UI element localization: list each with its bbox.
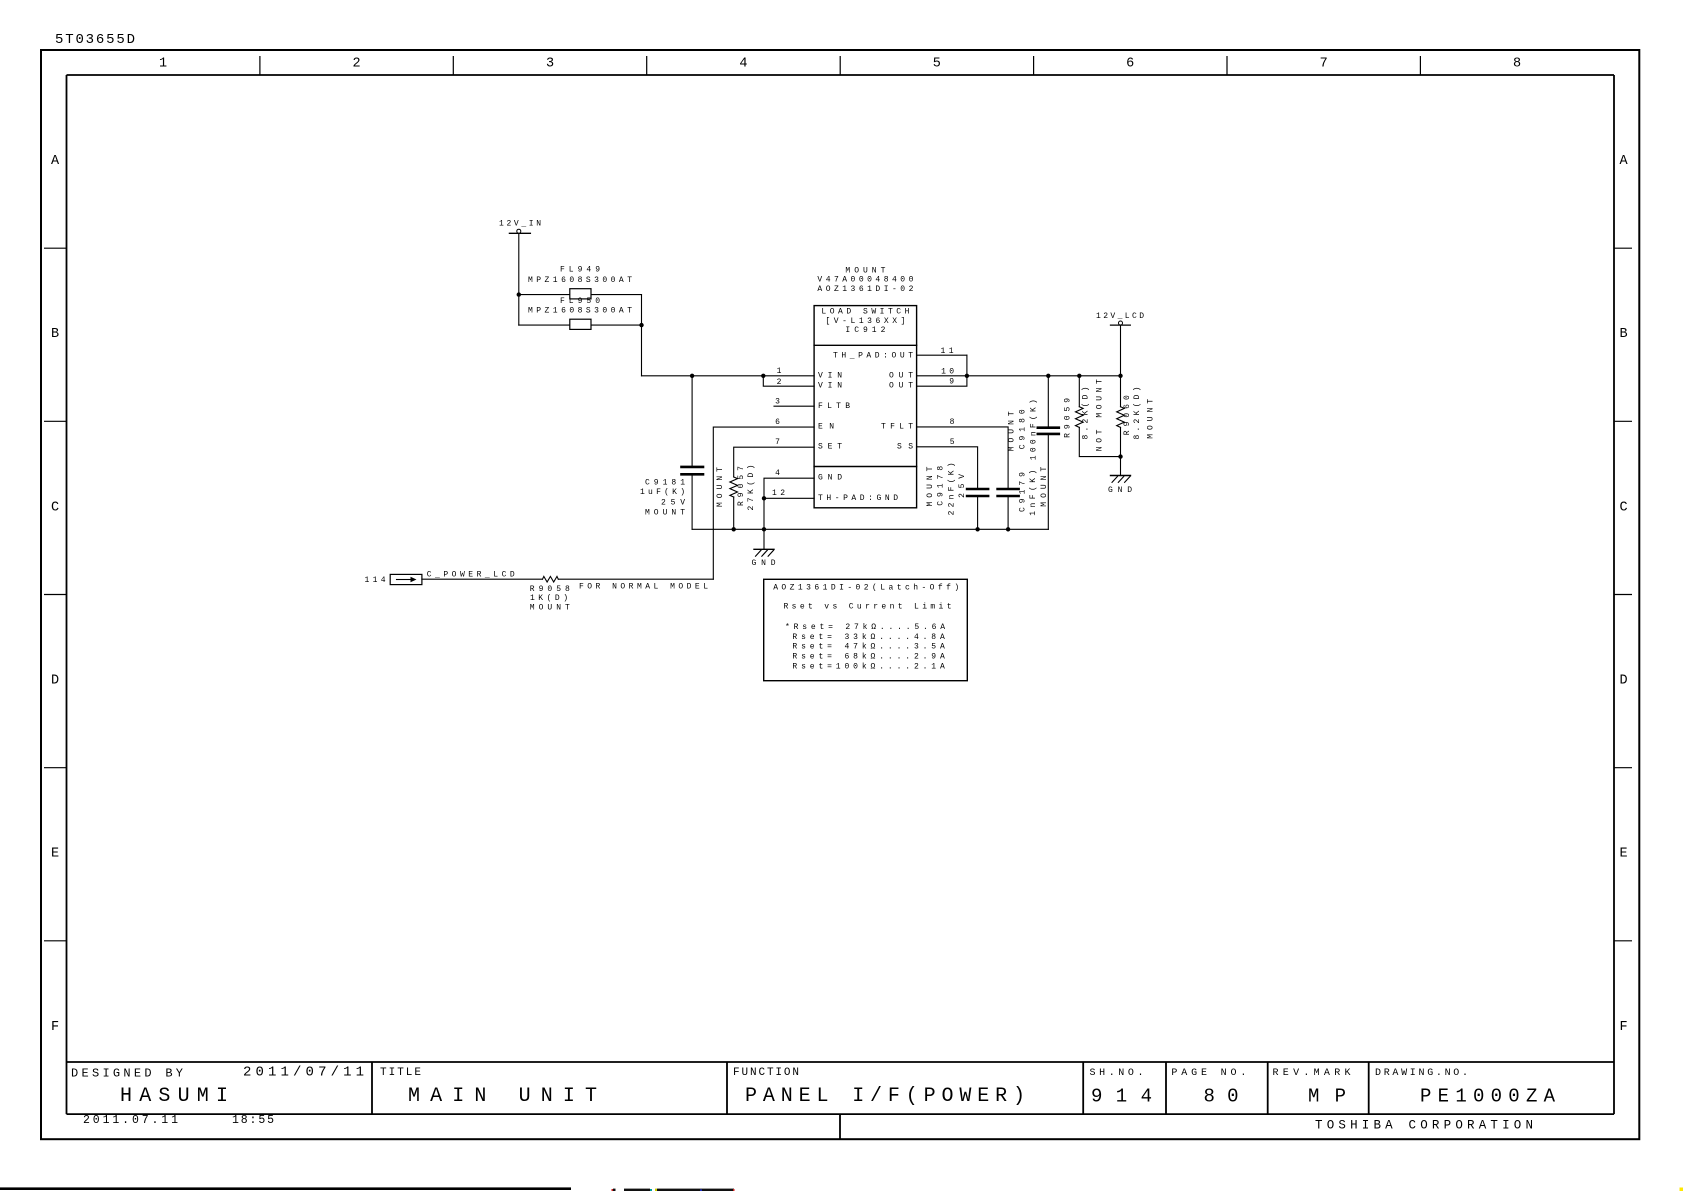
pin 12 stub TH-PAD:GND (764, 497, 814, 499)
svg-text:TITLE: TITLE (380, 1067, 421, 1079)
svg-text:4: 4 (775, 469, 780, 478)
row letters right (1619, 154, 1628, 1035)
connector 114 box (390, 574, 422, 584)
svg-text:D: D (51, 674, 59, 689)
pin 3 stub FLTB (774, 405, 814, 407)
resistor R9058 (543, 576, 559, 582)
svg-text:OUT: OUT (889, 382, 913, 391)
row ticks left (44, 248, 67, 941)
ferrite bead FL949 (570, 289, 591, 299)
capacitor C9180 (1047, 376, 1049, 427)
node C9179 bottom (1006, 527, 1010, 531)
wire VIN pin2 jog (763, 376, 814, 386)
pin 5 stub SS (917, 447, 978, 488)
svg-text:5: 5 (933, 57, 941, 72)
svg-text:VIN: VIN (818, 371, 842, 380)
svg-text:F: F (51, 1020, 59, 1035)
node 12V_LCD junction (1118, 374, 1122, 378)
svg-text:1: 1 (159, 57, 167, 72)
svg-text:25V: 25V (661, 498, 685, 507)
column ticks top (260, 56, 1421, 75)
wire 12V_IN down (518, 233, 520, 294)
capacitor C9181 (691, 376, 693, 466)
wire FL950 row (519, 324, 642, 326)
node VIN pins junction (761, 374, 765, 378)
svg-text:NOT MOUNT: NOT MOUNT (1096, 379, 1105, 451)
wire right node vertical (641, 295, 643, 376)
svg-text:GND: GND (818, 473, 842, 482)
node 12V_IN / FL junction (517, 292, 521, 296)
bottom scan artifact fragments (612, 1189, 614, 1191)
wire connector to R9058 (422, 578, 543, 580)
resistor R9059 (1078, 376, 1080, 407)
svg-text:1: 1 (777, 367, 782, 376)
TEXTS schematic (365, 220, 1156, 613)
pin 10 wire OUT net (917, 375, 1121, 377)
node R9057 bottom (732, 527, 736, 531)
row ticks right (1614, 248, 1632, 941)
node C9181 top (690, 374, 694, 378)
wire VIN net (642, 375, 815, 377)
connector 114 arrow head (411, 577, 417, 583)
svg-text:6: 6 (775, 418, 780, 427)
ground GND right (1111, 475, 1131, 477)
svg-text:9: 9 (949, 378, 954, 387)
node OUT pins junction (965, 374, 969, 378)
svg-text:D: D (1619, 674, 1627, 689)
note box AOZ1361DI-02 (764, 579, 968, 680)
ground GND left (754, 548, 774, 550)
svg-text:4: 4 (739, 57, 747, 72)
SCHEMATIC (390, 229, 1130, 584)
svg-text:7: 7 (775, 438, 780, 447)
svg-text:VIN: VIN (818, 382, 842, 391)
svg-text:6: 6 (1126, 57, 1134, 72)
svg-text:3: 3 (546, 57, 554, 72)
svg-text:2: 2 (777, 378, 782, 387)
wire FL949 row (519, 294, 642, 296)
svg-text:F: F (1619, 1020, 1627, 1035)
title block dividers (372, 1062, 1369, 1114)
row letters left (51, 154, 60, 1035)
svg-text:OUT: OUT (889, 371, 913, 380)
node C9178 bottom (975, 527, 979, 531)
pin 7 stub SET (734, 447, 814, 477)
svg-text:DESIGNED BY: DESIGNED BY (71, 1067, 183, 1081)
title block box (67, 1061, 1615, 1063)
svg-text:C: C (1619, 500, 1627, 515)
gnd bus wire (692, 528, 1048, 530)
node FL950 right junction (639, 323, 643, 327)
svg-text:A: A (1619, 154, 1628, 169)
svg-text:FUNCTION: FUNCTION (733, 1067, 799, 1079)
svg-text:MAIN UNIT: MAIN UNIT (408, 1085, 597, 1108)
resistor R9060 (1120, 376, 1122, 407)
capacitor C9179 (998, 489, 1019, 496)
ferrite bead FL950 (570, 319, 591, 329)
wire left node vertical (518, 295, 520, 326)
svg-text:GND: GND (1108, 486, 1132, 495)
power terminal 12V_IN (509, 232, 530, 234)
bottom scan artifact line (0, 1187, 571, 1190)
pin 9 stub (917, 355, 967, 386)
svg-text:AOZ1361DI-02(Latch-Off): AOZ1361DI-02(Latch-Off) (773, 583, 959, 592)
pin 6 stub EN + wire down (713, 427, 814, 579)
resistor R9057 (730, 477, 738, 497)
svg-text:5: 5 (950, 438, 955, 447)
node pin12 junction (762, 496, 766, 500)
svg-text:SET: SET (818, 443, 842, 452)
node R9059 bottom (1118, 454, 1122, 458)
svg-text:8: 8 (950, 418, 955, 427)
svg-text:7: 7 (1320, 57, 1328, 72)
pin 11 stub (917, 354, 967, 356)
bottom strip divider (839, 1114, 841, 1139)
capacitor C9178 (967, 489, 988, 496)
svg-text:914: 914 (1091, 1086, 1152, 1108)
pin 8 stub TFLT (917, 427, 1009, 488)
node GND bus junction (762, 527, 766, 531)
svg-text:25V: 25V (958, 474, 967, 498)
svg-text:8: 8 (1513, 57, 1521, 72)
svg-text:3: 3 (775, 397, 780, 406)
power terminal 12V_LCD (1111, 324, 1131, 326)
svg-text:5T03655D: 5T03655D (55, 32, 135, 48)
pin 4 stub GND + wire down (764, 478, 814, 549)
bottom right yellow dot (1680, 1188, 1683, 1191)
column numbers (159, 57, 1521, 72)
node C9180 top (1046, 374, 1050, 378)
svg-text:B: B (1619, 327, 1627, 342)
svg-text:A: A (51, 154, 60, 169)
node R9059 top (1077, 374, 1081, 378)
svg-text:C: C (51, 500, 59, 515)
svg-text:114: 114 (365, 576, 386, 585)
svg-text:DRAWING.NO.: DRAWING.NO. (1375, 1068, 1468, 1079)
svg-text:18:55: 18:55 (232, 1114, 274, 1127)
IC912 box (814, 306, 917, 508)
junction dots (517, 292, 1123, 531)
svg-text:2: 2 (353, 57, 361, 72)
svg-text:B: B (51, 327, 59, 342)
svg-text:E: E (1619, 847, 1627, 862)
svg-text:GND: GND (752, 559, 776, 568)
svg-text:Rset vs Current Limit: Rset vs Current Limit (784, 603, 952, 612)
svg-text:E: E (51, 847, 59, 862)
wire R9058 to EN vertical (558, 578, 713, 580)
